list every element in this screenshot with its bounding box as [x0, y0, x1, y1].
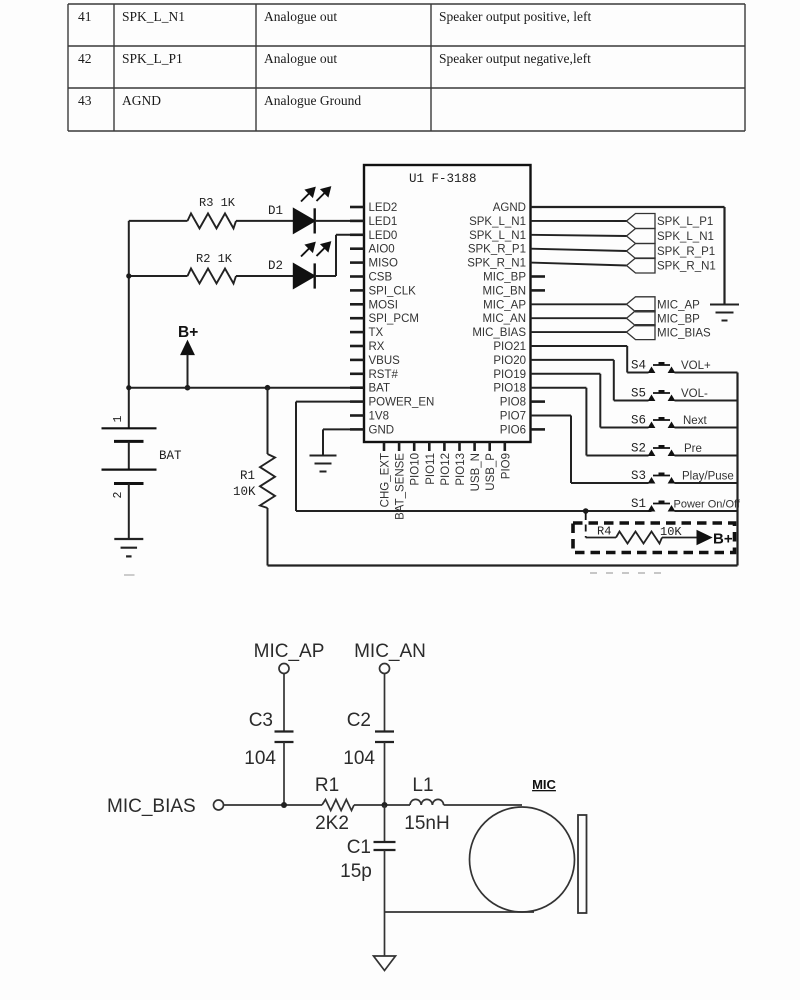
svg-text:PIO19: PIO19 [493, 369, 526, 381]
svg-text:MIC_BP: MIC_BP [657, 313, 700, 325]
svg-text:PIO9: PIO9 [500, 453, 512, 479]
svg-text:PIO18: PIO18 [493, 383, 526, 395]
svg-text:D2: D2 [268, 259, 283, 273]
svg-text:PIO20: PIO20 [493, 355, 526, 367]
svg-text:USB_N: USB_N [470, 453, 482, 491]
svg-text:104: 104 [244, 748, 276, 769]
svg-text:SPK_R_N1: SPK_R_N1 [657, 261, 716, 273]
svg-text:Power On/Off: Power On/Off [674, 499, 741, 511]
svg-text:S4: S4 [631, 359, 646, 373]
svg-text:PIO6: PIO6 [500, 424, 526, 436]
svg-text:Analogue out: Analogue out [264, 9, 337, 24]
svg-text:Speaker output positive, left: Speaker output positive, left [439, 9, 591, 24]
svg-text:L1: L1 [412, 775, 433, 796]
svg-text:CSB: CSB [369, 272, 393, 284]
svg-text:S5: S5 [631, 387, 646, 401]
svg-text:PIO10: PIO10 [410, 453, 422, 486]
svg-text:SPK_R_P1: SPK_R_P1 [468, 244, 526, 256]
svg-text:MIC_BP: MIC_BP [483, 272, 526, 284]
svg-text:PIO21: PIO21 [493, 341, 526, 353]
svg-text:VOL+: VOL+ [681, 360, 711, 372]
svg-text:Speaker output negative,left: Speaker output negative,left [439, 51, 591, 66]
svg-text:MOSI: MOSI [369, 299, 398, 311]
svg-text:MIC_BN: MIC_BN [483, 285, 526, 297]
svg-text:SPK_R_N1: SPK_R_N1 [467, 258, 526, 270]
svg-text:PIO13: PIO13 [455, 453, 467, 486]
svg-text:S1: S1 [631, 497, 646, 511]
svg-text:MIC: MIC [532, 777, 556, 792]
svg-text:C2: C2 [347, 710, 371, 731]
svg-text:TX: TX [369, 327, 384, 339]
svg-text:104: 104 [343, 748, 375, 769]
svg-text:Analogue out: Analogue out [264, 51, 337, 66]
svg-text:POWER_EN: POWER_EN [369, 397, 435, 409]
svg-text:R4: R4 [597, 525, 611, 539]
svg-text:GND: GND [369, 424, 395, 436]
svg-text:SPI_PCM: SPI_PCM [369, 313, 420, 325]
svg-text:PIO8: PIO8 [500, 397, 526, 409]
svg-text:LED0: LED0 [369, 230, 398, 242]
svg-text:SPK_L_N1: SPK_L_N1 [657, 231, 714, 243]
svg-text:R1: R1 [240, 469, 255, 483]
svg-text:SPK_L_P1: SPK_L_P1 [122, 51, 183, 66]
svg-text:PIO12: PIO12 [440, 453, 452, 486]
svg-text:Pre: Pre [684, 443, 702, 455]
svg-text:BAT: BAT [369, 383, 391, 395]
svg-text:43: 43 [78, 93, 92, 108]
svg-text:RX: RX [369, 341, 385, 353]
svg-text:15p: 15p [340, 861, 372, 882]
svg-text:2: 2 [112, 491, 125, 498]
svg-text:2K2: 2K2 [315, 813, 349, 834]
svg-text:USB_P: USB_P [485, 453, 497, 491]
svg-text:1V8: 1V8 [369, 411, 389, 423]
svg-text:SPK_L_N1: SPK_L_N1 [469, 230, 526, 242]
svg-text:U1 F-3188: U1 F-3188 [409, 172, 477, 186]
svg-text:R3 1K: R3 1K [199, 196, 236, 210]
svg-text:MIC_AP: MIC_AP [483, 299, 526, 311]
svg-text:VBUS: VBUS [369, 355, 401, 367]
svg-text:10K: 10K [233, 485, 256, 499]
svg-text:SPI_CLK: SPI_CLK [369, 285, 417, 297]
svg-text:B+: B+ [178, 324, 198, 341]
svg-text:AGND: AGND [493, 202, 526, 214]
svg-text:MIC_AP: MIC_AP [657, 300, 700, 312]
svg-text:PIO7: PIO7 [500, 411, 526, 423]
svg-text:BAT: BAT [159, 449, 182, 463]
svg-text:Play/Puse: Play/Puse [682, 471, 734, 483]
svg-text:BAT_SENSE: BAT_SENSE [395, 453, 407, 520]
svg-text:RST#: RST# [369, 369, 399, 381]
svg-text:C3: C3 [249, 710, 273, 731]
svg-text:S3: S3 [631, 469, 646, 483]
svg-text:CHG_EXT: CHG_EXT [380, 453, 392, 507]
svg-text:MIC_BIAS: MIC_BIAS [107, 796, 196, 817]
svg-text:MISO: MISO [369, 258, 398, 270]
svg-text:B+: B+ [713, 531, 733, 548]
svg-text:S6: S6 [631, 414, 646, 428]
svg-text:R1: R1 [315, 775, 339, 796]
svg-text:15nH: 15nH [404, 813, 449, 834]
svg-text:VOL-: VOL- [681, 388, 708, 400]
svg-text:AIO0: AIO0 [369, 244, 395, 256]
svg-text:SPK_L_P1: SPK_L_P1 [657, 216, 713, 228]
svg-text:MIC_BIAS: MIC_BIAS [472, 327, 526, 339]
svg-text:AGND: AGND [122, 93, 161, 108]
svg-text:42: 42 [78, 51, 92, 66]
svg-text:Next: Next [683, 415, 707, 427]
svg-text:C1: C1 [347, 837, 371, 858]
svg-text:10K: 10K [660, 525, 682, 539]
svg-text:D1: D1 [268, 204, 283, 218]
svg-text:41: 41 [78, 9, 92, 24]
svg-text:Analogue Ground: Analogue Ground [264, 93, 361, 108]
svg-text:MIC_BIAS: MIC_BIAS [657, 327, 711, 339]
svg-text:R2 1K: R2 1K [196, 252, 233, 266]
svg-text:PIO11: PIO11 [425, 453, 437, 485]
svg-text:LED1: LED1 [369, 216, 398, 228]
svg-text:MIC_AN: MIC_AN [483, 313, 526, 325]
svg-text:MIC_AP: MIC_AP [254, 641, 325, 662]
svg-text:1: 1 [112, 415, 125, 422]
svg-text:LED2: LED2 [369, 202, 398, 214]
svg-text:MIC_AN: MIC_AN [354, 641, 426, 662]
svg-text:SPK_L_N1: SPK_L_N1 [469, 216, 526, 228]
svg-text:SPK_R_P1: SPK_R_P1 [657, 246, 715, 258]
svg-text:S2: S2 [631, 442, 646, 456]
svg-text:SPK_L_N1: SPK_L_N1 [122, 9, 185, 24]
